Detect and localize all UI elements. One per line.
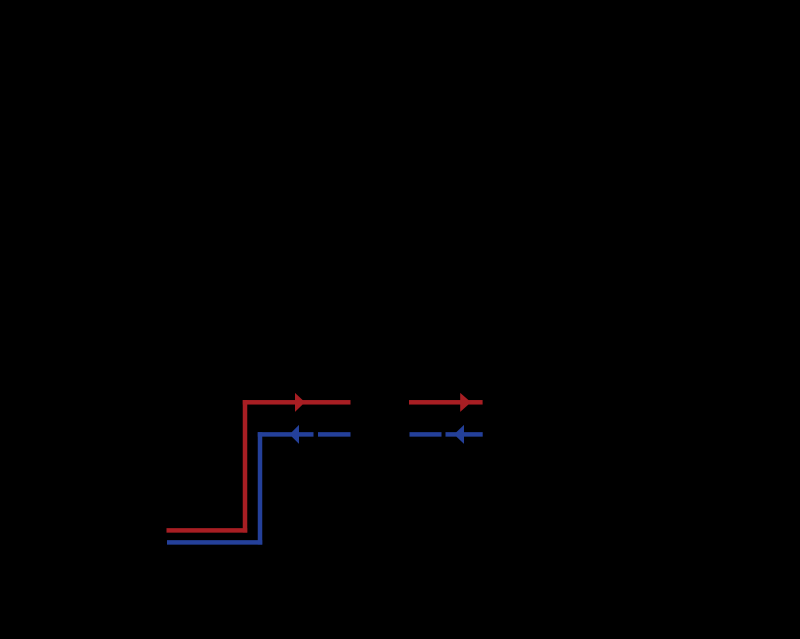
blue return pipe: dash after wall <box>410 432 442 437</box>
red supply pipe: upper run, right segment (after wall) <box>409 400 483 405</box>
red supply pipe: upper run, left segment (before wall) <box>243 400 351 405</box>
blue flow arrowhead, right (points left) <box>454 425 464 444</box>
red supply pipe: vertical riser <box>243 400 248 533</box>
blue return pipe: vertical riser <box>258 432 263 545</box>
red flow arrowhead, left (points right) <box>295 393 305 412</box>
red supply pipe: bottom horizontal segment <box>167 528 248 533</box>
blue return pipe: solid right end segment <box>446 432 483 437</box>
blue return pipe: bottom horizontal segment <box>167 540 262 545</box>
blue flow arrowhead, left (points left) <box>290 425 300 444</box>
blue return pipe: dash before wall <box>318 432 351 437</box>
blue return pipe: upper run solid left segment <box>258 432 314 437</box>
red flow arrowhead, right (points right) <box>460 393 471 412</box>
